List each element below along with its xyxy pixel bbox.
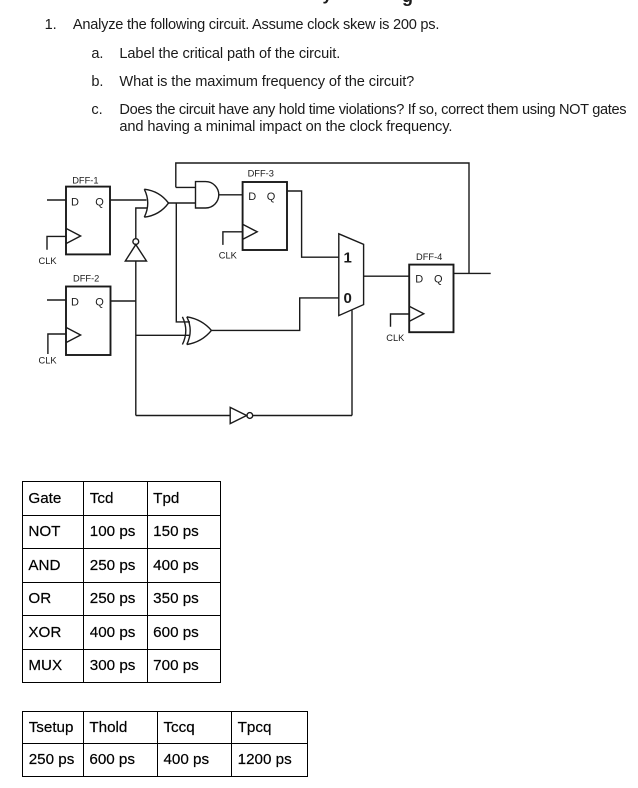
- DFF-1 CLK wire: [47, 236, 66, 249]
- DFF-2: [66, 287, 111, 356]
- DFF-2 D input stub: [47, 299, 66, 301]
- svg-text:DFF-1: DFF-1: [72, 176, 98, 186]
- OR gate G1: [144, 189, 168, 217]
- DFF-1 clock triangle: [66, 228, 81, 243]
- DFF-4 clock triangle: [409, 306, 424, 321]
- bottom feedback wire: [136, 415, 230, 417]
- svg-text:Q: Q: [95, 296, 104, 308]
- svg-text:CLK: CLK: [39, 356, 58, 366]
- svg-text:D: D: [248, 191, 256, 203]
- svg-text:D: D: [71, 196, 79, 208]
- top feedback wire: [176, 163, 469, 273]
- wire AND output to DFF-3 D: [219, 194, 243, 196]
- wire XOR bottom input branch: [136, 334, 190, 336]
- cut-off bold title descenders at top: [323, 0, 332, 3]
- MUX M1: [339, 234, 364, 316]
- AND gate G2: [196, 182, 219, 208]
- svg-text:Q: Q: [434, 274, 443, 286]
- wire OR bottom input from inverter: [136, 208, 148, 239]
- DFF-4 CLK wire: [391, 314, 410, 327]
- DFF-2 clock triangle: [66, 327, 81, 342]
- wire DFF-1 Q to OR top input: [110, 199, 147, 201]
- wire DFF-4 Q output stub: [454, 272, 491, 274]
- wire DFF-3 Q to MUX input 1: [287, 191, 339, 257]
- inverter U1 (NOT, pointing up, bubble on top): [133, 239, 139, 245]
- DFF-3 CLK wire: [223, 232, 243, 245]
- svg-text:CLK: CLK: [219, 250, 238, 260]
- svg-text:CLK: CLK: [386, 333, 405, 343]
- wire NOT output to MUX select vertical: [253, 415, 352, 417]
- svg-text:Q: Q: [267, 191, 276, 203]
- svg-text:0: 0: [344, 290, 352, 307]
- svg-text:DFF-4: DFF-4: [416, 252, 442, 262]
- wire junction down to XOR top input: [176, 203, 190, 322]
- DFF-1 D input stub: [47, 199, 66, 201]
- gate timing table: [22, 481, 221, 683]
- svg-text:CLK: CLK: [39, 256, 58, 266]
- wire OR output to AND: [169, 202, 196, 204]
- flip-flop timing table: [22, 711, 307, 777]
- svg-text:Q: Q: [95, 196, 104, 208]
- DFF-3: [243, 182, 287, 250]
- svg-text:D: D: [71, 296, 79, 308]
- wire inverter input down the long vertical: [135, 261, 137, 416]
- svg-text:DFF-2: DFF-2: [73, 274, 99, 284]
- inverter U2 (NOT, pointing right): [230, 407, 246, 423]
- DFF-4: [409, 265, 453, 333]
- DFF-3 clock triangle: [243, 224, 258, 239]
- DFF-2 CLK wire: [48, 334, 66, 354]
- XOR gate G3: [182, 317, 211, 345]
- circuit schematic: [0, 0, 638, 460]
- wire MUX output to DFF-4 D: [364, 275, 410, 277]
- wire MUX select from bottom NOT: [351, 310, 353, 415]
- svg-text:DFF-3: DFF-3: [248, 169, 274, 179]
- svg-text:1: 1: [344, 249, 352, 266]
- svg-text:D: D: [415, 274, 423, 286]
- problem statement: [45, 17, 57, 34]
- DFF-1: [66, 187, 110, 255]
- wire DFF-2 Q to vertical: [111, 300, 136, 302]
- wire bend into AND top input: [176, 186, 196, 188]
- wire XOR output to MUX input 0: [211, 298, 338, 331]
